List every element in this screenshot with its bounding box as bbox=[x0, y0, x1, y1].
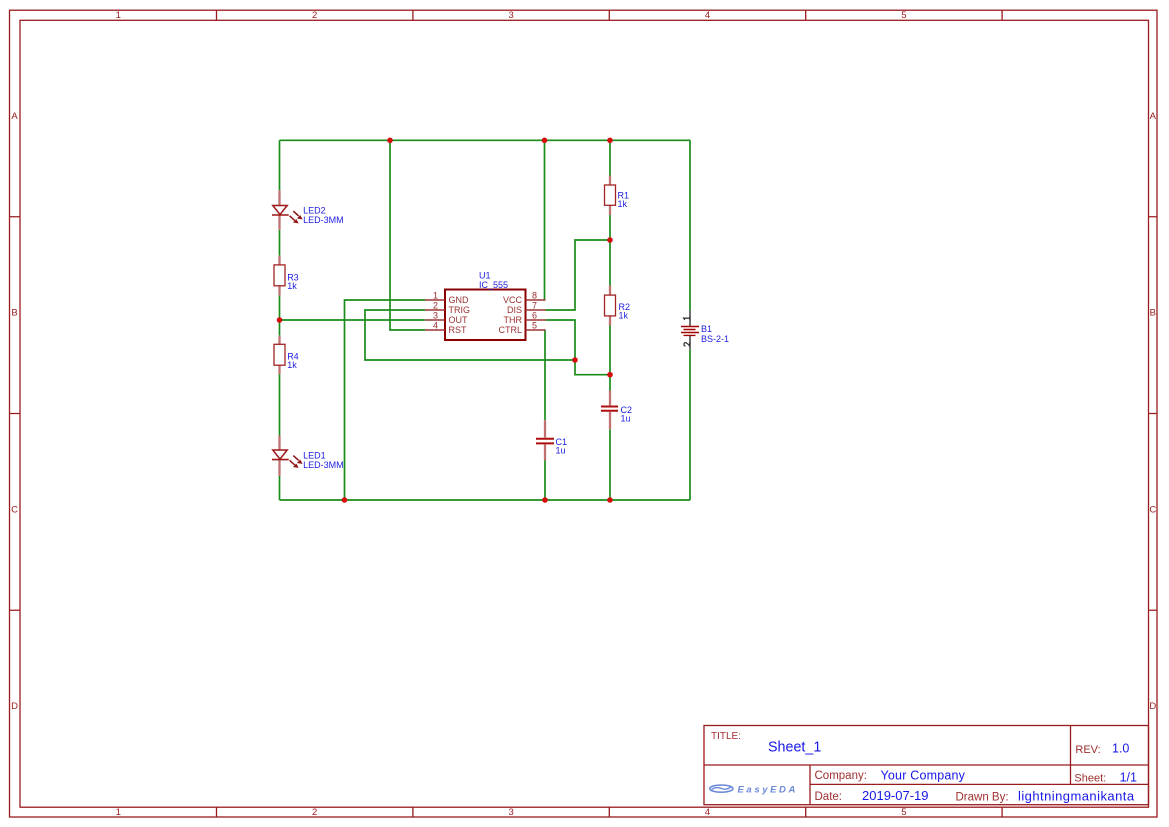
U1 pin 2 TRIG bbox=[425, 300, 470, 315]
svg-text:A: A bbox=[11, 111, 18, 122]
ruler labels right bbox=[1149, 111, 1156, 712]
svg-text:C: C bbox=[11, 505, 18, 516]
junction node top rail x544.5 bbox=[542, 138, 548, 144]
svg-text:1k: 1k bbox=[287, 281, 297, 291]
svg-text:5: 5 bbox=[901, 807, 906, 818]
svg-text:D: D bbox=[1149, 701, 1156, 712]
ruler labels top bbox=[116, 10, 907, 21]
U1 pin 7 DIS bbox=[507, 300, 546, 315]
ruler ticks top bbox=[217, 10, 1003, 20]
svg-text:CTRL: CTRL bbox=[498, 325, 522, 335]
U1 pin 4 RST bbox=[425, 320, 467, 335]
svg-text:Sheet:: Sheet: bbox=[1074, 773, 1106, 785]
ruler ticks left bbox=[10, 217, 21, 611]
wire left rail R3-R4 through OUT node bbox=[279, 296, 281, 336]
wire C2-bottom segment bbox=[609, 429, 611, 500]
svg-text:B: B bbox=[11, 308, 17, 319]
wire TRIG pin2 bbox=[365, 310, 575, 360]
capacitor C1 bbox=[536, 420, 567, 460]
svg-text:4: 4 bbox=[705, 10, 710, 21]
wire THR pin6 bbox=[546, 320, 576, 360]
svg-text:A: A bbox=[1150, 111, 1157, 122]
svg-text:2: 2 bbox=[312, 10, 317, 21]
op-amp U1 IC_555 body bbox=[445, 270, 526, 340]
svg-text:3: 3 bbox=[508, 807, 513, 818]
wire OUT pin3 bbox=[280, 319, 426, 321]
svg-text:EasyEDA: EasyEDA bbox=[738, 784, 798, 795]
U1 pin 6 THR bbox=[504, 310, 546, 325]
svg-text:IC_555: IC_555 bbox=[479, 280, 508, 290]
junction node bottom rail x610 bbox=[607, 497, 613, 503]
svg-text:RST: RST bbox=[449, 325, 468, 335]
svg-text:6: 6 bbox=[532, 310, 537, 320]
ruler ticks bottom bbox=[217, 807, 1003, 817]
svg-text:LED1: LED1 bbox=[303, 451, 326, 461]
svg-text:Company:: Company: bbox=[815, 770, 867, 782]
junction node DIS R1-R2 bbox=[607, 237, 613, 243]
svg-text:4: 4 bbox=[705, 807, 710, 818]
wire R2-C2 segment bbox=[609, 326, 611, 391]
svg-text:VCC: VCC bbox=[503, 295, 523, 305]
resistor R2 bbox=[605, 286, 631, 326]
wire left rail R4-LED1 bbox=[279, 374, 281, 435]
resistor R4 bbox=[274, 336, 299, 375]
svg-text:DIS: DIS bbox=[507, 305, 522, 315]
battery B1 bbox=[681, 310, 729, 350]
svg-text:2019-07-19: 2019-07-19 bbox=[862, 788, 929, 803]
svg-text:BS-2-1: BS-2-1 bbox=[701, 334, 729, 344]
ruler labels left bbox=[11, 111, 18, 712]
ruler labels bottom bbox=[116, 807, 907, 818]
junction node top rail x610 bbox=[607, 138, 613, 144]
wire GND bottom rail bbox=[280, 499, 691, 501]
EasyEDA logo bbox=[710, 784, 798, 795]
LED LED1 bbox=[272, 436, 344, 476]
svg-text:LED-3MM: LED-3MM bbox=[303, 215, 344, 225]
title block bbox=[704, 726, 1149, 805]
wire CTRL pin5 to C1 bbox=[544, 330, 546, 420]
wire VCC pin8 column bbox=[544, 140, 546, 300]
wire GND pin1 bbox=[345, 300, 426, 500]
svg-text:D: D bbox=[11, 701, 18, 712]
svg-text:4: 4 bbox=[433, 320, 438, 330]
battery pin number 2 bbox=[684, 342, 690, 346]
svg-text:TRIG: TRIG bbox=[449, 305, 471, 315]
svg-text:1: 1 bbox=[116, 807, 121, 818]
svg-text:3: 3 bbox=[433, 310, 438, 320]
wire R1-R2 segment through DIS node bbox=[609, 215, 611, 286]
svg-text:Date:: Date: bbox=[815, 791, 843, 803]
junction node top rail x390 bbox=[387, 138, 393, 144]
wire left rail LED2-R3 bbox=[279, 230, 281, 256]
ruler ticks right bbox=[1149, 217, 1158, 611]
svg-text:B: B bbox=[1150, 308, 1156, 319]
svg-text:5: 5 bbox=[901, 10, 906, 21]
junction node TRIG-THR bbox=[572, 357, 578, 363]
svg-text:3: 3 bbox=[508, 10, 513, 21]
svg-text:2: 2 bbox=[433, 300, 438, 310]
wire R1 column top bbox=[609, 140, 611, 175]
svg-text:THR: THR bbox=[504, 315, 523, 325]
svg-text:1u: 1u bbox=[621, 414, 631, 424]
svg-text:Your Company: Your Company bbox=[881, 769, 966, 783]
junction node R2-C2 bbox=[607, 372, 613, 378]
svg-text:REV:: REV: bbox=[1075, 744, 1100, 756]
svg-text:OUT: OUT bbox=[449, 315, 469, 325]
wire TRIG node to R2/C2 node bbox=[575, 360, 610, 375]
svg-text:B1: B1 bbox=[701, 324, 712, 334]
svg-text:7: 7 bbox=[532, 300, 537, 310]
resistor R3 bbox=[274, 256, 299, 296]
svg-text:lightningmanikanta: lightningmanikanta bbox=[1018, 789, 1135, 804]
U1 pin 5 CTRL bbox=[498, 320, 545, 335]
resistor R1 bbox=[605, 176, 630, 216]
svg-text:2: 2 bbox=[312, 807, 317, 818]
svg-text:1: 1 bbox=[116, 10, 121, 21]
svg-text:1k: 1k bbox=[287, 360, 297, 370]
svg-text:TITLE:: TITLE: bbox=[711, 731, 741, 742]
U1 pin 1 GND bbox=[425, 290, 469, 305]
wire C1 to bottom rail bbox=[544, 461, 546, 501]
wire right rail battery bottom bbox=[689, 350, 691, 500]
svg-text:1/1: 1/1 bbox=[1120, 771, 1137, 785]
junction node bottom rail x344.5 bbox=[342, 497, 348, 503]
svg-text:Drawn By:: Drawn By: bbox=[956, 792, 1009, 804]
svg-text:1u: 1u bbox=[556, 446, 566, 456]
wire left rail segment top bbox=[279, 140, 281, 190]
battery pin number 1 bbox=[684, 317, 690, 320]
svg-text:1k: 1k bbox=[618, 199, 628, 209]
wire DIS pin7 bbox=[546, 240, 611, 310]
junction node bottom rail x545 bbox=[542, 497, 548, 503]
svg-text:C: C bbox=[1149, 505, 1156, 516]
junction node OUT left rail bbox=[277, 317, 283, 323]
LED LED2 bbox=[272, 190, 344, 230]
svg-text:1: 1 bbox=[433, 290, 438, 300]
U1 pin 3 OUT bbox=[425, 310, 468, 325]
svg-text:GND: GND bbox=[449, 295, 470, 305]
capacitor C2 bbox=[601, 391, 632, 430]
svg-text:LED-3MM: LED-3MM bbox=[303, 460, 344, 470]
wire RST pin4 bbox=[390, 140, 425, 330]
svg-text:Sheet_1: Sheet_1 bbox=[768, 740, 821, 756]
svg-text:1k: 1k bbox=[619, 311, 629, 321]
wire VCC top rail bbox=[280, 139, 691, 141]
wire right rail battery top bbox=[689, 140, 691, 310]
wire left rail LED1-bottom bbox=[279, 476, 281, 500]
svg-text:8: 8 bbox=[532, 290, 537, 300]
U1 pin 8 VCC bbox=[503, 290, 546, 305]
svg-text:1.0: 1.0 bbox=[1112, 742, 1129, 756]
svg-text:5: 5 bbox=[532, 320, 537, 330]
